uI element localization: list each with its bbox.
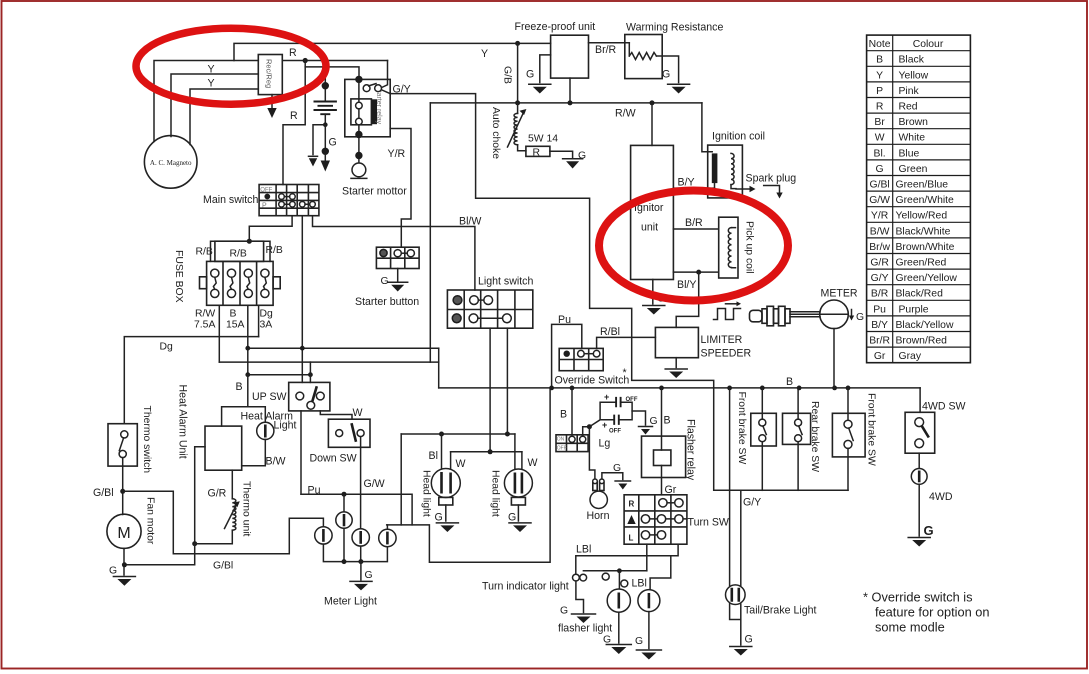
wire C1 drop (343, 494, 345, 512)
svg-text:R/W: R/W (615, 108, 636, 120)
svg-text:Bl/Y: Bl/Y (677, 279, 696, 291)
wire horn feed (589, 427, 595, 482)
spark plug elbow arrow (764, 186, 780, 193)
svg-text:Br/R: Br/R (869, 336, 890, 347)
wire Bl/Y ignitor to pickup (673, 271, 718, 273)
svg-text:Light: Light (274, 420, 297, 432)
svg-text:B: B (230, 309, 237, 320)
svg-text:flasher light: flasher light (558, 623, 612, 635)
rectifier/regulator U1 Rec/Reg (258, 55, 282, 95)
svg-text:R: R (629, 500, 635, 509)
svg-text:G: G (745, 634, 753, 646)
wire flasher relay feed (661, 388, 663, 450)
svg-text:Thermo unit: Thermo unit (241, 481, 252, 537)
wire UP SW down to Pu line (300, 411, 302, 494)
svg-text:P: P (262, 202, 267, 209)
svg-text:G/Bl: G/Bl (213, 561, 233, 572)
meter light C2 (315, 527, 332, 544)
turn switch S5 (624, 495, 687, 544)
svg-text:Head light: Head light (490, 470, 501, 517)
wire Y top line to Freeze-proof unit (234, 43, 551, 60)
svg-text:Horn: Horn (587, 510, 610, 522)
wire headlight W bus (451, 451, 522, 453)
wire y570 line (583, 570, 646, 572)
svg-text:G: G (365, 570, 373, 581)
wire flasher1 drop (618, 571, 620, 589)
wire fan motor to ground (123, 548, 125, 575)
wire freeze unit left ground (540, 55, 551, 83)
wire B trunk line (439, 387, 920, 389)
wire R drop to main switch (283, 61, 305, 185)
svg-text:Black/Yellow: Black/Yellow (896, 320, 954, 331)
svg-text:Pick up coil: Pick up coil (744, 221, 755, 274)
svg-text:G/Y: G/Y (743, 497, 761, 509)
svg-text:G: G (635, 636, 643, 647)
svg-text:B/Y: B/Y (871, 320, 888, 331)
warming resistance R2 (625, 35, 662, 79)
ground starter button (388, 281, 408, 283)
node R/W choke (515, 100, 520, 105)
svg-text:Green: Green (899, 164, 928, 175)
node Bl/Y branch (696, 270, 701, 275)
wire thermo switch branch to meter light C2 (123, 491, 324, 554)
wire R/B right stub (264, 241, 270, 261)
red ellipse annotation 1 (136, 28, 326, 104)
relay contact circles (363, 85, 370, 92)
svg-text:G/Bl: G/Bl (869, 180, 889, 191)
head light DS8 (504, 469, 532, 505)
svg-text:G: G (381, 276, 389, 287)
wire HL2 W drop (521, 452, 523, 471)
ground warming (668, 83, 690, 85)
svg-text:some modle: some modle (875, 620, 945, 635)
node B onoff tap (570, 386, 575, 391)
node y348 main switch vertical (300, 346, 305, 351)
svg-text:B: B (560, 409, 567, 421)
node Lg junction (587, 424, 592, 429)
down switch S11 (328, 419, 370, 447)
wire heat alarm unit left leg (195, 447, 205, 544)
node R junction (303, 58, 308, 63)
svg-text:G: G (650, 416, 658, 427)
svg-text:Turn indicator light: Turn indicator light (482, 581, 569, 593)
svg-text:W: W (353, 407, 363, 419)
svg-text:Front brake SW: Front brake SW (866, 393, 877, 466)
node battery minus bobble (322, 148, 328, 154)
ground horn (615, 480, 630, 482)
wire R line from Rec/Reg right (282, 60, 387, 62)
ground meter light (350, 580, 372, 582)
wire R/W left drop (429, 103, 431, 362)
svg-text:R/B: R/B (230, 249, 247, 260)
svg-text:Black/White: Black/White (896, 226, 951, 237)
svg-text:Black: Black (899, 55, 925, 66)
wire G/W down sw to meter light (360, 437, 362, 529)
fuse box F1 (200, 261, 281, 305)
svg-text:R/Bl: R/Bl (600, 326, 620, 338)
wire battery ground branch left (313, 125, 325, 155)
svg-text:Note: Note (869, 39, 891, 50)
node G/Bl thermo (120, 489, 125, 494)
4WD switch S9 (905, 412, 935, 453)
svg-text:LBl: LBl (576, 544, 591, 556)
wire fuse col4 Dg down (258, 305, 260, 336)
wire tail light left feed (729, 388, 731, 586)
svg-text:*: * (623, 367, 627, 379)
wire meter light ground (360, 562, 362, 580)
svg-text:B: B (236, 381, 243, 393)
svg-text:Bl.: Bl. (874, 148, 886, 159)
svg-text:Gr: Gr (874, 351, 886, 362)
svg-text:Light switch: Light switch (478, 276, 533, 288)
wire Bl/W main switch to light switch (313, 216, 475, 290)
svg-text:Purple: Purple (899, 304, 929, 315)
node connector O 1 (602, 573, 609, 580)
svg-text:Colour: Colour (913, 39, 944, 50)
freeze-proof unit U2 (551, 35, 589, 78)
spark plug arrow right (736, 188, 750, 190)
svg-text:Pu: Pu (873, 304, 886, 315)
svg-text:Lg: Lg (599, 438, 611, 450)
svg-text:Rear brake SW: Rear brake SW (809, 401, 820, 472)
wire relay top to coil (358, 83, 360, 103)
heat alarm feed wire (222, 375, 266, 426)
svg-text:Red: Red (899, 102, 918, 113)
svg-text:Green/Blue: Green/Blue (896, 180, 949, 191)
flasher light DS3 (638, 590, 660, 612)
wire junction down to fan motor line (124, 544, 194, 565)
wire meter light collector (323, 528, 387, 561)
wire R/W right drop to ignition coil (702, 103, 712, 152)
svg-text:G/R: G/R (208, 488, 227, 500)
svg-text:Rec/Reg: Rec/Reg (265, 59, 274, 88)
svg-text:Black/Red: Black/Red (896, 289, 944, 300)
wire onoff out to node (583, 427, 590, 437)
svg-text:G/W: G/W (364, 478, 385, 490)
wire Pu from B line to override (552, 324, 582, 388)
override switch S3 (559, 348, 603, 370)
ground freeze unit (529, 83, 551, 85)
wire HL1 W drop (450, 452, 452, 471)
wire B/W light to unit (242, 440, 266, 466)
svg-text:B: B (786, 376, 793, 388)
relay coil circles (356, 102, 363, 109)
meter G arrow (851, 310, 853, 317)
svg-text:G/Y: G/Y (871, 273, 889, 284)
ground flasher2 (636, 649, 661, 651)
svg-text:R/B: R/B (196, 247, 213, 258)
wire thermo unit to junction (195, 530, 233, 543)
svg-text:3A: 3A (260, 320, 273, 331)
svg-text:FUSE BOX: FUSE BOX (173, 250, 184, 303)
tail brake light DS4 (726, 585, 746, 605)
node connector O 2 (621, 580, 628, 587)
wire magneto phase2 to Rec/Reg pin2 (171, 74, 258, 137)
battery BT1 (314, 102, 337, 125)
wire UP SW to Down SW (320, 411, 352, 419)
red ellipse annotation 2 (599, 191, 788, 301)
wire trunk y362 (219, 361, 438, 363)
svg-text:G: G (329, 137, 337, 149)
starter motor M2 (351, 163, 367, 178)
node R/W freeze (568, 100, 573, 105)
svg-text:4WD: 4WD (929, 491, 953, 503)
on-off switch S4 (556, 435, 588, 452)
node y374 left (245, 372, 250, 377)
wire rear brake feed (797, 388, 799, 419)
wire starter button ground (397, 269, 399, 282)
svg-text:Bl: Bl (429, 450, 438, 462)
svg-text:Main switch: Main switch (203, 194, 258, 206)
svg-text:Starter button: Starter button (355, 296, 419, 308)
horn H1 (590, 479, 607, 508)
limiter speeder U4 (655, 327, 698, 357)
node battery top bobble (322, 83, 328, 89)
svg-text:B: B (876, 55, 883, 66)
svg-text:Flasher relay: Flasher relay (685, 419, 697, 481)
ground tail light (730, 646, 752, 648)
wire meter light bus y524.9 (387, 388, 550, 562)
svg-text:unit: unit (641, 222, 658, 234)
node battery minus junction (323, 122, 328, 127)
ground HL1 (436, 522, 458, 524)
wire 4WD to ground (918, 484, 920, 536)
svg-text:+: + (602, 420, 607, 430)
svg-text:OFF: OFF (557, 446, 567, 452)
wire G/B drop (517, 43, 519, 103)
node B front brake tap (760, 386, 765, 391)
wire battery feed line (305, 67, 359, 80)
svg-text:Pink: Pink (899, 86, 920, 97)
svg-text:Y: Y (208, 78, 215, 90)
svg-text:Gray: Gray (899, 351, 922, 362)
svg-text:G: G (856, 312, 864, 323)
svg-text:M: M (117, 525, 130, 542)
wire R/W trunk (430, 102, 702, 104)
wire rear brake out (797, 442, 799, 491)
wire meter to B line (833, 329, 835, 388)
meter M3 (820, 300, 849, 329)
svg-text:R: R (290, 110, 298, 122)
thermo unit RT1 (225, 499, 240, 530)
svg-text:OFF: OFF (609, 429, 621, 435)
wire battery minus down (324, 125, 326, 148)
wire warming right ground (656, 56, 678, 83)
wire freeze unit bottom to R/W (569, 78, 571, 103)
wire G/Y long path (390, 94, 848, 491)
front brake switch S6 (751, 413, 777, 446)
wire tail light ground (730, 604, 741, 645)
fan motor M4 (107, 514, 141, 548)
svg-text:Dg: Dg (260, 309, 274, 320)
ground fan motor (113, 576, 135, 578)
svg-text:Blue: Blue (899, 148, 920, 159)
wire turn sw L row drop (646, 544, 648, 571)
capacitor loop Lg C1 C2 (589, 392, 637, 435)
node y374 right (308, 372, 313, 377)
wire flasher relay out (661, 466, 663, 495)
svg-text:White: White (899, 133, 926, 144)
svg-text:Heat Alarm Unit: Heat Alarm Unit (177, 385, 189, 459)
wire indicator to ground (576, 581, 584, 613)
svg-text:Pu: Pu (308, 485, 321, 497)
svg-text:Thermo switch: Thermo switch (141, 406, 152, 474)
svg-text:Yellow: Yellow (899, 70, 929, 81)
ground under battery (324, 154, 326, 160)
ground arrow under Rec/Reg (271, 95, 273, 108)
svg-text:A. C. Magneto: A. C. Magneto (150, 159, 192, 167)
svg-text:B/W: B/W (266, 456, 286, 468)
wire resistor to ground (550, 151, 573, 158)
head light DS7 (431, 469, 460, 506)
svg-text:OFF: OFF (626, 397, 638, 403)
wire magneto phase3 to Rec/Reg pin3 (190, 89, 258, 145)
turn indicator light DS1 (573, 574, 580, 581)
wire UP SW feed (309, 362, 311, 382)
svg-text:7.5A: 7.5A (194, 320, 215, 331)
flasher light DS2 (607, 589, 630, 612)
svg-text:Brown/Red: Brown/Red (896, 336, 948, 347)
node Bl HL1 (439, 432, 444, 437)
svg-text:W: W (875, 133, 885, 144)
wire ignitor ground (652, 280, 654, 305)
node B meter tap (832, 386, 837, 391)
wire 4WD feed corner (919, 388, 921, 412)
svg-text:G: G (876, 164, 884, 175)
svg-text:G: G (578, 151, 586, 162)
wire tail light right feed (740, 490, 742, 585)
wire G/R unit to thermo unit (231, 470, 233, 499)
auto choke L1 (508, 103, 527, 151)
wire G/Y from relay contact (382, 90, 391, 94)
A.C. Magneto M1 (144, 136, 197, 189)
node B flasher tap (659, 386, 664, 391)
ground limiter (665, 368, 687, 370)
wire main switch long vertical to UP SW (301, 216, 303, 383)
wire y374 branch (248, 374, 311, 376)
wire light switch out A (489, 328, 491, 452)
ground HL2 (509, 522, 531, 524)
pulse symbol (714, 309, 741, 320)
svg-text:B/W: B/W (870, 226, 890, 237)
node B front brake2 tap (846, 386, 851, 391)
svg-text:Ignition coil: Ignition coil (712, 131, 765, 143)
wire Pu line (301, 494, 412, 525)
pulse arrow (726, 303, 737, 305)
node relay bottom bobble (356, 131, 362, 137)
wire Dg line to thermo switch (124, 337, 258, 424)
wire HL2 Bl drop (514, 434, 516, 470)
node heat alarm G/Bl junction (192, 541, 197, 546)
wire cap loop to ground (632, 411, 645, 425)
svg-text:Pu: Pu (558, 314, 571, 326)
fuse box connector top (215, 241, 264, 261)
svg-text:Green/Yellow: Green/Yellow (896, 273, 958, 284)
svg-text:R: R (289, 47, 297, 59)
node R/W ignitor (650, 100, 655, 105)
svg-text:Br/w: Br/w (869, 242, 890, 253)
wire LBl line (576, 544, 678, 574)
svg-text:G: G (924, 523, 934, 538)
node B Pu tap (549, 386, 554, 391)
svg-text:Brown/White: Brown/White (896, 242, 955, 253)
node relay top (356, 76, 362, 82)
ignitor unit U3 (631, 145, 674, 279)
svg-text:W: W (528, 457, 538, 469)
svg-text:Br/R: Br/R (595, 44, 617, 56)
svg-text:Tail/Brake Light: Tail/Brake Light (744, 605, 816, 617)
wire magneto phase1 to Rec/Reg pin1 (154, 61, 258, 142)
wire R/W to ignitor top (651, 103, 653, 145)
ground ignitor (643, 305, 665, 307)
wire B/R ignitor to pickup (673, 228, 718, 230)
svg-text:G/B: G/B (502, 66, 513, 84)
node Pu C1 tap (342, 492, 347, 497)
node fan ground junction (122, 562, 127, 567)
wire R feed into relay (382, 61, 388, 88)
svg-text:Front brake SW: Front brake SW (736, 392, 747, 465)
node W bus feed (488, 449, 493, 454)
svg-text:Override Switch: Override Switch (555, 375, 630, 387)
svg-text:LIMITER: LIMITER (701, 334, 743, 346)
meter light C3 (352, 529, 369, 546)
svg-text:G/R: G/R (870, 258, 889, 269)
light switch S13 (447, 290, 532, 328)
node fuse connector junction (247, 239, 252, 244)
wire fuse col1 down (218, 305, 220, 362)
svg-text:Dg: Dg (160, 342, 174, 353)
starter button S2 (376, 247, 419, 268)
svg-text:G: G (435, 512, 443, 524)
svg-text:+: + (604, 392, 609, 402)
UP SW S10 (289, 382, 330, 411)
ground flasher1 (606, 644, 631, 646)
svg-text:4WD SW: 4WD SW (922, 401, 966, 413)
svg-text:Y: Y (208, 64, 215, 76)
wire R/Bl limiter to override (597, 337, 656, 348)
ground resistor (563, 158, 583, 160)
ground 4WD (908, 537, 930, 539)
svg-text:Down SW: Down SW (310, 453, 357, 465)
wire B/Y ignitor to coil (673, 187, 714, 189)
svg-text:G: G (508, 512, 516, 524)
svg-text:Auto choke: Auto choke (490, 107, 501, 159)
svg-text:OFF: OFF (260, 188, 272, 194)
front brake switch 2 S8 (832, 413, 865, 457)
wire battery tap (324, 67, 326, 102)
wire limiter ground (675, 358, 677, 368)
heat alarm light DS6 (257, 422, 274, 439)
svg-text:METER: METER (821, 288, 858, 300)
svg-text:G: G (603, 635, 611, 646)
svg-text:G: G (560, 606, 568, 617)
node starter bobble (356, 152, 362, 158)
wire trunk y348 (248, 347, 439, 349)
node Y line G/B tap (515, 41, 520, 46)
svg-text:R/B: R/B (266, 245, 283, 256)
svg-text:G: G (109, 566, 117, 577)
svg-text:ON: ON (557, 437, 565, 443)
wire R/B left stub (211, 241, 215, 261)
svg-text:P: P (876, 86, 883, 97)
svg-text:* Override switch is: * Override switch is (863, 590, 973, 605)
svg-text:G: G (613, 463, 621, 474)
svg-text:Spark plug: Spark plug (746, 173, 797, 185)
wire C4 drop (386, 525, 388, 530)
wire 4WD sw to indicator (918, 453, 920, 468)
svg-text:Brown: Brown (899, 117, 929, 128)
node B rear brake tap (797, 386, 802, 391)
